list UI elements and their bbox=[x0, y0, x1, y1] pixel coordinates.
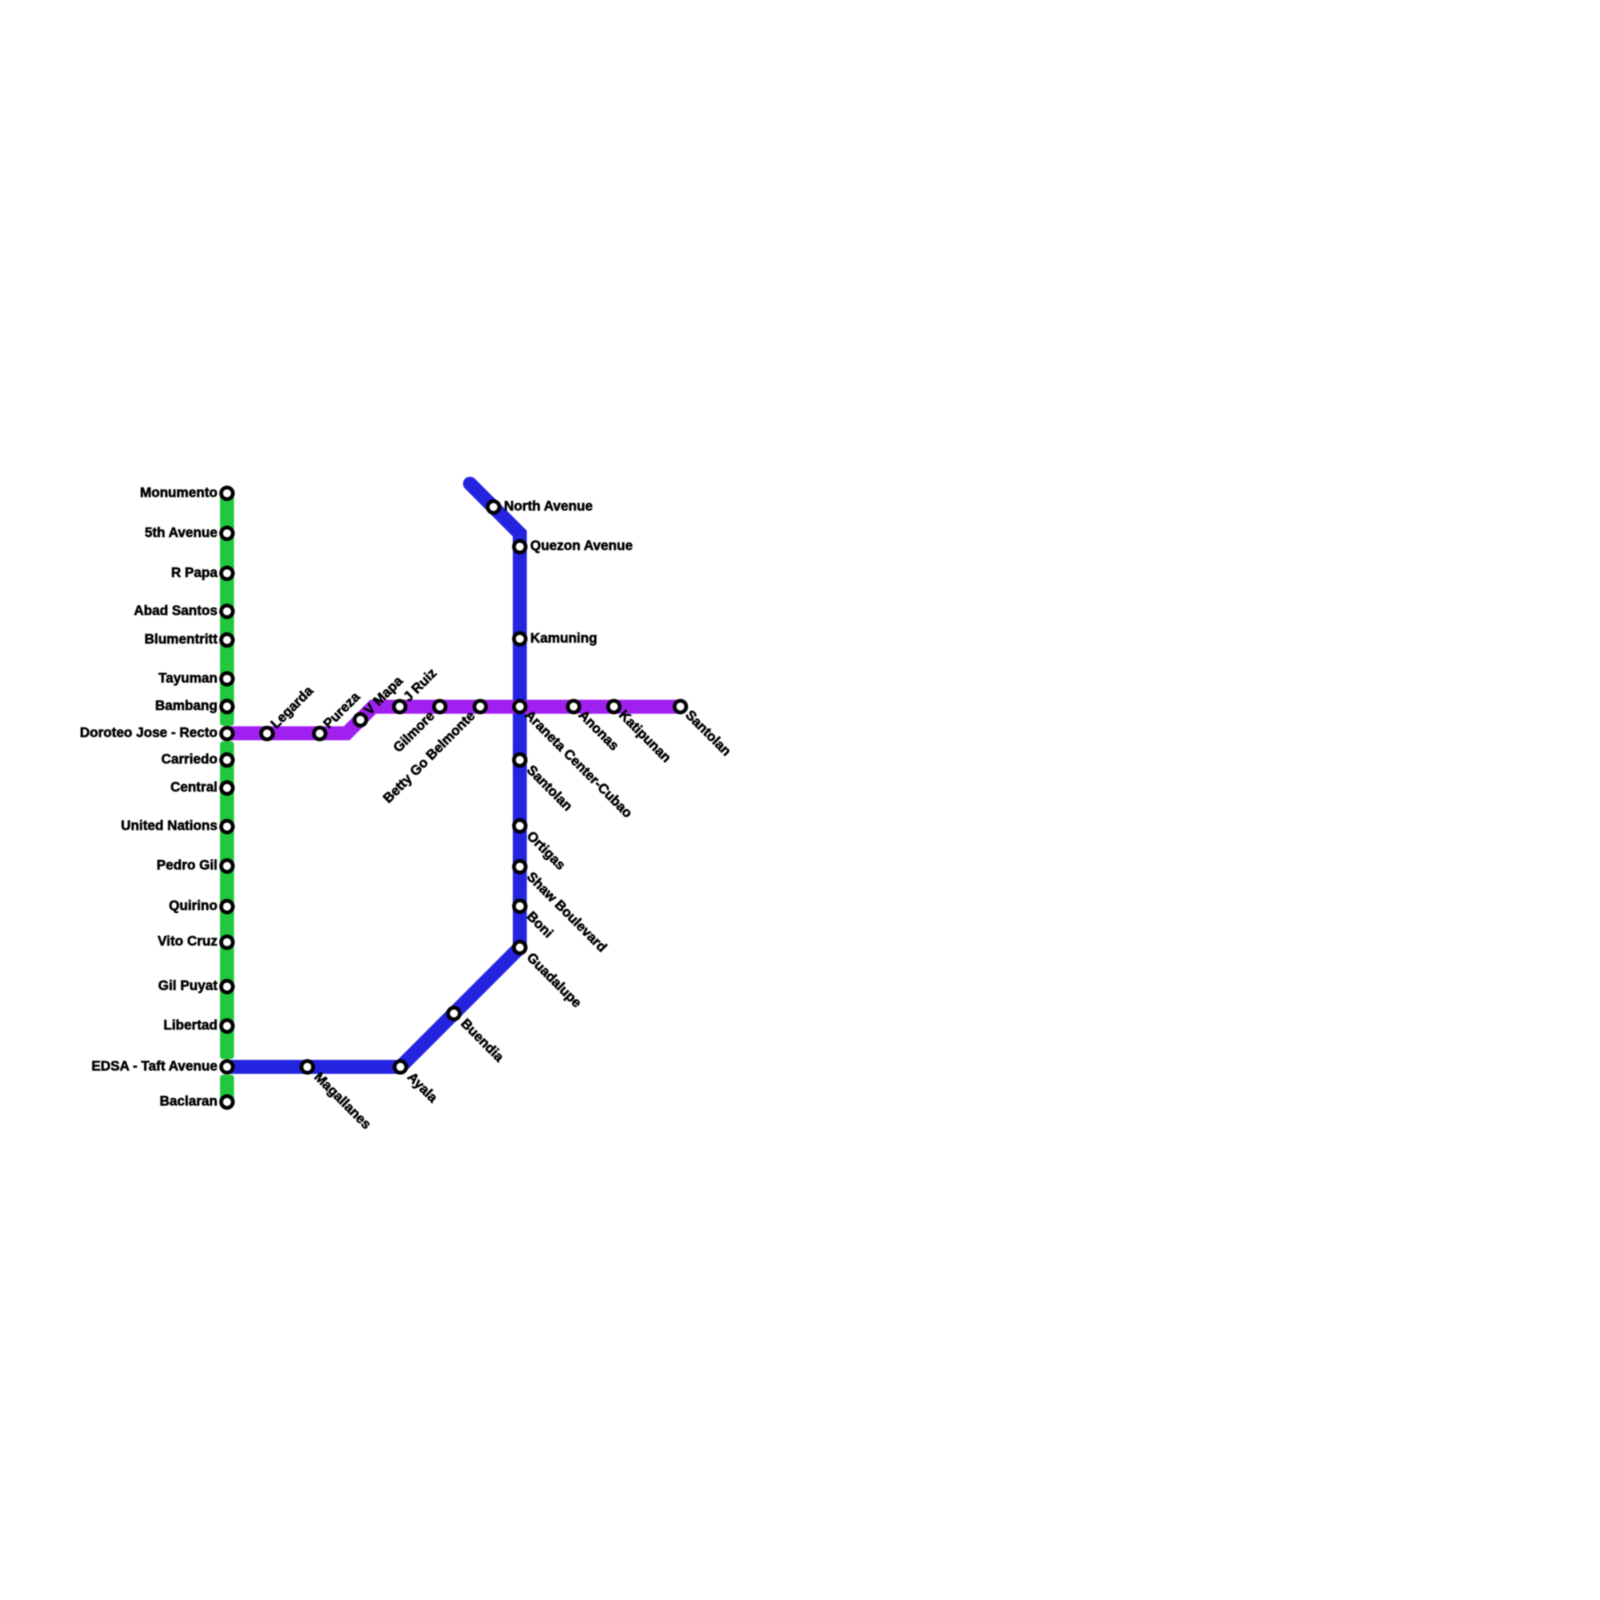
LRT-1 green line segment Doroteo Jose - Recto to EDSA-Taft Avenue bbox=[220, 741, 234, 1059]
svg-text:Guadalupe: Guadalupe bbox=[524, 950, 585, 1011]
svg-text:Santolan: Santolan bbox=[524, 762, 575, 813]
svg-text:Anonas: Anonas bbox=[576, 707, 622, 753]
station North Avenue bbox=[488, 499, 593, 514]
svg-text:Carriedo: Carriedo bbox=[161, 752, 217, 767]
station Abad Santos bbox=[134, 603, 233, 618]
svg-text:Doroteo Jose - Recto: Doroteo Jose - Recto bbox=[80, 725, 218, 740]
svg-text:Baclaran: Baclaran bbox=[160, 1094, 218, 1109]
station Doroteo Jose - Recto bbox=[80, 725, 233, 740]
station Bambang bbox=[155, 698, 233, 713]
station Betty Go Belmonte bbox=[380, 701, 486, 806]
svg-text:Pedro Gil: Pedro Gil bbox=[157, 858, 218, 873]
svg-text:Santolan: Santolan bbox=[683, 707, 734, 758]
station Boni bbox=[514, 900, 556, 940]
LRT-1 green line segment EDSA-Taft Avenue to Baclaran bbox=[220, 1075, 234, 1105]
svg-text:North Avenue: North Avenue bbox=[504, 499, 593, 514]
svg-text:Buendia: Buendia bbox=[458, 1016, 507, 1065]
station Quirino bbox=[169, 898, 233, 913]
svg-text:United Nations: United Nations bbox=[121, 818, 218, 833]
svg-text:Boni: Boni bbox=[524, 909, 556, 941]
station Legarda bbox=[261, 683, 316, 739]
station Ortigas bbox=[514, 820, 569, 873]
station Gil Puyat bbox=[158, 978, 233, 993]
svg-text:Legarda: Legarda bbox=[268, 683, 317, 732]
svg-text:Libertad: Libertad bbox=[164, 1018, 218, 1033]
station Santolan bbox=[675, 701, 735, 759]
svg-text:R Papa: R Papa bbox=[171, 565, 218, 580]
svg-text:5th Avenue: 5th Avenue bbox=[145, 525, 218, 540]
station Central bbox=[170, 780, 233, 795]
svg-text:Central: Central bbox=[170, 780, 217, 795]
svg-text:Bambang: Bambang bbox=[155, 698, 217, 713]
svg-text:Tayuman: Tayuman bbox=[158, 670, 217, 685]
station Katipunan bbox=[608, 701, 674, 765]
station Monumento bbox=[140, 485, 233, 500]
station Ayala bbox=[395, 1061, 441, 1106]
station 5th Avenue bbox=[145, 525, 233, 540]
svg-text:Magallanes: Magallanes bbox=[311, 1069, 374, 1132]
svg-text:Gil Puyat: Gil Puyat bbox=[158, 978, 218, 993]
station R Papa bbox=[171, 565, 233, 580]
svg-text:EDSA - Taft Avenue: EDSA - Taft Avenue bbox=[92, 1058, 218, 1073]
station Araneta Center-Cubao bbox=[514, 701, 635, 821]
station Vito Cruz bbox=[158, 934, 233, 949]
station Baclaran bbox=[160, 1094, 233, 1109]
svg-text:Araneta Center-Cubao: Araneta Center-Cubao bbox=[522, 707, 635, 820]
station Gilmore bbox=[390, 701, 445, 756]
station Pedro Gil bbox=[157, 858, 233, 873]
station Tayuman bbox=[158, 670, 232, 685]
svg-text:Vito Cruz: Vito Cruz bbox=[158, 934, 218, 949]
station Magallanes bbox=[301, 1061, 374, 1132]
station Santolan bbox=[514, 754, 575, 814]
svg-text:J Ruiz: J Ruiz bbox=[400, 665, 439, 704]
svg-text:Ayala: Ayala bbox=[404, 1069, 440, 1105]
svg-text:Ortigas: Ortigas bbox=[524, 828, 569, 873]
station Kamuning bbox=[514, 630, 597, 645]
svg-text:Monumento: Monumento bbox=[140, 485, 218, 500]
svg-text:Quirino: Quirino bbox=[169, 898, 218, 913]
LRT-1 green line segment Monumento to Doroteo Jose - Recto bbox=[220, 489, 234, 726]
station V Mapa bbox=[355, 673, 406, 726]
station Carriedo bbox=[161, 752, 233, 767]
station Anonas bbox=[568, 701, 622, 754]
svg-text:Quezon Avenue: Quezon Avenue bbox=[530, 538, 633, 553]
station Pureza bbox=[314, 689, 363, 740]
svg-text:Abad Santos: Abad Santos bbox=[134, 603, 218, 618]
MRT-3 blue line bbox=[227, 484, 520, 1067]
station Buendia bbox=[448, 1008, 507, 1065]
station Guadalupe bbox=[514, 942, 585, 1011]
station Blumentritt bbox=[145, 632, 233, 647]
station United Nations bbox=[121, 818, 233, 833]
svg-text:Blumentritt: Blumentritt bbox=[145, 632, 218, 647]
svg-text:Katipunan: Katipunan bbox=[616, 707, 674, 765]
station Libertad bbox=[164, 1018, 233, 1033]
station Shaw Boulevard bbox=[514, 861, 610, 955]
station J Ruiz bbox=[394, 665, 440, 712]
LRT-2 purple line bbox=[227, 707, 680, 734]
station EDSA - Taft Avenue bbox=[92, 1058, 233, 1073]
svg-text:Kamuning: Kamuning bbox=[530, 630, 597, 645]
station Quezon Avenue bbox=[514, 538, 633, 553]
